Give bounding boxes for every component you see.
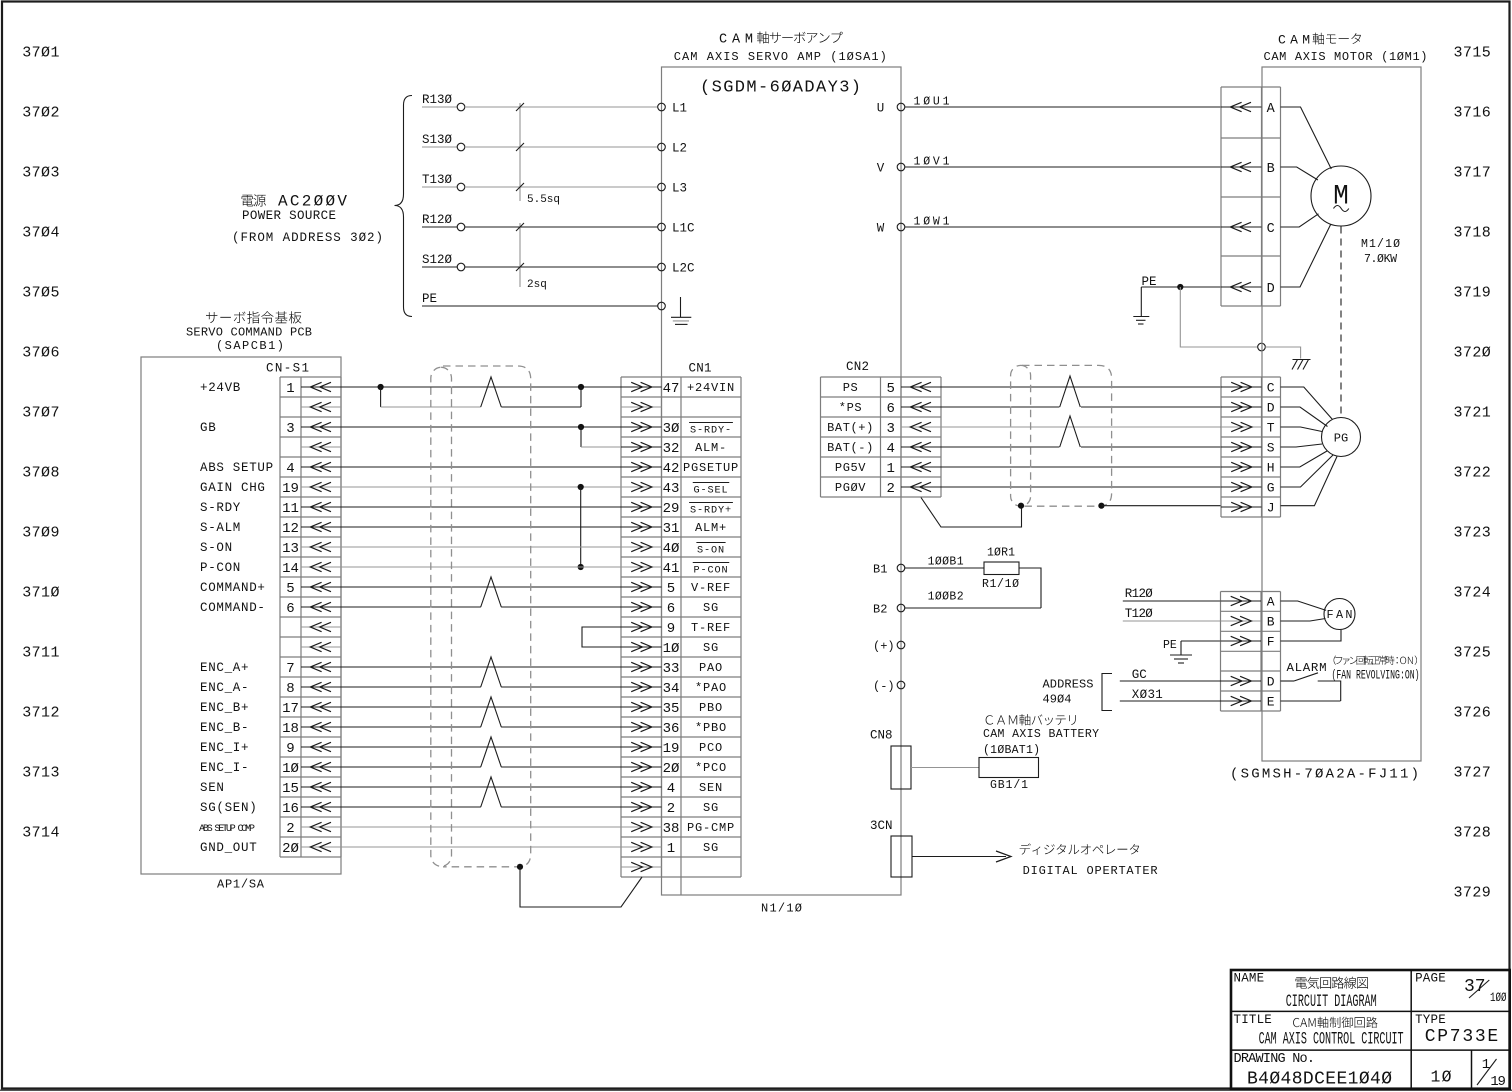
svg-text:ENC_A-: ENC_A-	[200, 681, 249, 695]
right margin line numbers 3715-3729	[1454, 45, 1491, 902]
svg-text:J: J	[1267, 501, 1275, 516]
label ADDRESS 4904	[1043, 678, 1094, 707]
terminal B2	[873, 603, 905, 617]
svg-text:L2C: L2C	[672, 262, 695, 276]
svg-text:(SGDM-6ØADAY3): (SGDM-6ØADAY3)	[700, 79, 861, 98]
terminal W wire 1ØW1	[877, 216, 1221, 236]
svg-text:AP1/SA: AP1/SA	[217, 878, 265, 892]
ground symbol PE	[1133, 287, 1149, 324]
svg-text:5: 5	[667, 581, 675, 597]
wire GB net	[341, 424, 621, 447]
terminal U wire 1ØU1	[877, 96, 1221, 116]
wire CN8 to battery	[911, 767, 979, 769]
svg-text:1ØR1: 1ØR1	[987, 547, 1015, 560]
svg-text:1ØØB2: 1ØØB2	[928, 591, 964, 604]
connector CN1 pin table	[621, 377, 741, 895]
terminal L3	[658, 182, 687, 196]
svg-text:ABS SETUP: ABS SETUP	[200, 461, 274, 475]
svg-text:19: 19	[282, 481, 299, 497]
wire F to fan	[1281, 630, 1342, 641]
wire S13Ø to L2	[422, 133, 658, 151]
wire A to fan	[1281, 601, 1327, 610]
svg-text:(-): (-)	[873, 680, 895, 694]
svg-text:S-RDY-: S-RDY-	[690, 426, 732, 437]
svg-text:PG-CMP: PG-CMP	[687, 821, 735, 835]
svg-text:SG: SG	[703, 841, 719, 855]
svg-text:COMMAND+: COMMAND+	[200, 581, 266, 595]
svg-text:GAIN CHG: GAIN CHG	[200, 481, 266, 495]
svg-text:ALM+: ALM+	[695, 521, 727, 535]
svg-text:P-CON: P-CON	[693, 566, 728, 577]
cable shield left	[431, 367, 452, 866]
title JP CAM axis control circuit	[1293, 1017, 1377, 1028]
svg-text:7: 7	[286, 661, 294, 677]
wire PE to servo amp	[422, 292, 658, 306]
svg-text:*PBO: *PBO	[695, 721, 727, 735]
svg-text:COMMAND-: COMMAND-	[200, 601, 266, 615]
terminal L2C	[658, 262, 695, 276]
wire S-RDY net	[341, 506, 621, 508]
svg-text:(FROM ADDRESS 3Ø2): (FROM ADDRESS 3Ø2)	[232, 231, 383, 245]
wire R12Ø to L4	[422, 213, 658, 231]
wire E alarm	[1281, 700, 1341, 702]
svg-text:CAM AXIS BATTERY: CAM AXIS BATTERY	[983, 728, 1099, 741]
wires PG pins to encoder	[1281, 387, 1338, 506]
svg-text:371Ø: 371Ø	[22, 585, 59, 602]
wire S12Ø to L5	[422, 253, 658, 271]
shield junction left	[1018, 503, 1024, 509]
encoder PG circle	[1322, 418, 1361, 457]
svg-text:ENC_B+: ENC_B+	[200, 701, 249, 715]
svg-text:7.ØKW: 7.ØKW	[1364, 253, 1397, 266]
svg-text:CN1: CN1	[689, 362, 712, 376]
svg-text:L1: L1	[672, 102, 687, 116]
wire S-ON net	[341, 546, 621, 548]
svg-text:38: 38	[663, 821, 680, 837]
servo amp box U10SA1	[662, 67, 902, 895]
svg-text:9: 9	[667, 621, 675, 637]
wire 100B1	[904, 556, 984, 569]
CN-S1 input arrows	[301, 382, 341, 851]
svg-text:3714: 3714	[22, 825, 59, 842]
wire COMMAND- net	[341, 606, 481, 608]
svg-text:3729: 3729	[1454, 885, 1491, 902]
svg-text:SG: SG	[703, 601, 719, 615]
label CAM axis motor JP	[1278, 33, 1361, 48]
label M1/10 7.0KW	[1361, 238, 1400, 266]
svg-text:PG: PG	[1334, 432, 1348, 446]
svg-text:D: D	[1267, 282, 1275, 297]
svg-text:37Ø9: 37Ø9	[22, 525, 59, 542]
svg-text:1: 1	[286, 381, 294, 397]
svg-text:R1/1Ø: R1/1Ø	[982, 578, 1019, 591]
svg-text:SEN: SEN	[200, 781, 225, 795]
svg-text:N1/1Ø: N1/1Ø	[761, 902, 802, 916]
motor to PG dashed link	[1340, 227, 1342, 418]
wire A to motor	[1281, 107, 1332, 169]
svg-text:ENC_I-: ENC_I-	[200, 761, 249, 775]
CN2 arrows	[901, 382, 941, 491]
wire PG0V net	[941, 486, 1221, 488]
svg-text:3721: 3721	[1454, 405, 1491, 422]
svg-text:FAN: FAN	[1327, 608, 1353, 622]
svg-text:4: 4	[286, 461, 294, 477]
svg-text:3718: 3718	[1454, 225, 1491, 242]
wire +24VB net	[341, 377, 621, 407]
battery 10BAT1	[979, 714, 1099, 792]
svg-text:1: 1	[886, 461, 894, 477]
svg-text:372Ø: 372Ø	[1454, 345, 1491, 362]
svg-text:CN-S1: CN-S1	[266, 362, 309, 376]
svg-text:49Ø4: 49Ø4	[1043, 693, 1072, 707]
svg-text:C: C	[1267, 222, 1275, 237]
svg-text:CAM AXIS MOTOR (1ØM1): CAM AXIS MOTOR (1ØM1)	[1264, 50, 1428, 64]
label servo command PCB JP	[206, 311, 302, 323]
wire ABS SETUP net	[341, 466, 621, 468]
svg-text:DRAWING No.: DRAWING No.	[1234, 1052, 1316, 1067]
svg-text:*PS: *PS	[839, 401, 862, 415]
terminal V wire 1ØV1	[877, 156, 1221, 176]
CN-S1 signal labels	[199, 381, 274, 855]
svg-text:6: 6	[667, 601, 675, 617]
chassis ground symbol	[1292, 360, 1311, 370]
wire ENC_I- net	[341, 766, 481, 768]
svg-text:U: U	[877, 102, 885, 116]
svg-text:PCO: PCO	[699, 741, 723, 755]
svg-text:6: 6	[286, 601, 294, 617]
svg-text:F: F	[1267, 635, 1275, 650]
svg-text:S-ON: S-ON	[697, 546, 725, 557]
svg-text:B: B	[1267, 615, 1275, 630]
fan pins A B F D E	[1221, 595, 1275, 710]
brace power source	[395, 96, 413, 317]
svg-text:(SAPCB1): (SAPCB1)	[216, 339, 284, 353]
svg-text:PG5V: PG5V	[835, 461, 866, 475]
svg-text:5.5sq: 5.5sq	[527, 194, 560, 206]
svg-text:3CN: 3CN	[870, 819, 893, 833]
svg-text:PGØV: PGØV	[835, 481, 866, 495]
svg-text:B2: B2	[873, 603, 887, 617]
svg-text:ENC_I+: ENC_I+	[200, 741, 249, 755]
svg-text:2: 2	[286, 821, 294, 837]
svg-text:PAGE: PAGE	[1415, 972, 1446, 986]
wire ENC_B- net	[341, 726, 481, 728]
wire T120	[1123, 620, 1221, 622]
svg-text:POWER SOURCE: POWER SOURCE	[242, 209, 336, 223]
connector CN8	[870, 729, 911, 790]
svg-text:G: G	[1267, 481, 1275, 496]
svg-text:SEN: SEN	[699, 781, 723, 795]
svg-text:A: A	[1267, 595, 1275, 610]
svg-text:T13Ø: T13Ø	[422, 173, 453, 187]
motor power connector table	[1221, 87, 1281, 306]
svg-text:ADDRESS: ADDRESS	[1043, 678, 1094, 692]
title block frame	[1231, 970, 1510, 1089]
wire R120	[1123, 600, 1221, 602]
svg-text:PE: PE	[1163, 639, 1177, 652]
svg-text:33: 33	[663, 661, 680, 677]
wire GAIN CHG net	[341, 484, 621, 570]
title name JP	[1296, 977, 1368, 989]
svg-text:PBO: PBO	[699, 701, 723, 715]
svg-text:3726: 3726	[1454, 705, 1491, 722]
terminal L1	[658, 102, 687, 116]
svg-text:37Ø4: 37Ø4	[22, 225, 59, 242]
svg-text:SG: SG	[703, 641, 719, 655]
svg-text:34: 34	[663, 681, 680, 697]
svg-text:37Ø2: 37Ø2	[22, 105, 59, 122]
svg-text:S: S	[1267, 441, 1275, 456]
svg-text:V-REF: V-REF	[691, 581, 731, 595]
arrow to digital operator	[912, 851, 1011, 862]
svg-text:H: H	[1267, 461, 1275, 476]
svg-text:18: 18	[282, 721, 299, 737]
svg-text:4: 4	[886, 441, 894, 457]
label CAM axis servo amp JP	[719, 32, 843, 48]
wire PE to D	[1141, 284, 1221, 290]
svg-text:XØ31: XØ31	[1132, 688, 1163, 702]
svg-text:GB: GB	[200, 421, 216, 435]
svg-text:G-SEL: G-SEL	[693, 486, 728, 497]
svg-text:3719: 3719	[1454, 285, 1491, 302]
svg-text:GB1/1: GB1/1	[990, 779, 1028, 792]
svg-text:ENC_B-: ENC_B-	[200, 721, 249, 735]
svg-text:2Ø: 2Ø	[663, 761, 680, 777]
fan connector table	[1221, 592, 1281, 712]
motor box 10M1	[1262, 67, 1421, 761]
svg-text:32: 32	[663, 441, 680, 457]
svg-text:PGSETUP: PGSETUP	[683, 461, 739, 475]
svg-text:37Ø5: 37Ø5	[22, 285, 59, 302]
ground symbol PE fan	[1170, 641, 1192, 663]
svg-text:BAT(+): BAT(+)	[827, 421, 874, 435]
svg-text:CAM AXIS SERVO AMP (1ØSA1): CAM AXIS SERVO AMP (1ØSA1)	[674, 50, 887, 64]
wire shield drain to CN1	[520, 867, 642, 907]
svg-text:B1: B1	[873, 563, 887, 577]
svg-text:T12Ø: T12Ø	[1125, 607, 1153, 621]
svg-text:2Ø: 2Ø	[282, 841, 299, 857]
svg-text:CN2: CN2	[846, 360, 869, 374]
svg-text:3Ø: 3Ø	[663, 421, 680, 437]
svg-text:2: 2	[886, 481, 894, 497]
svg-text:37Ø3: 37Ø3	[22, 165, 59, 182]
svg-text:3725: 3725	[1454, 645, 1491, 662]
svg-text:29: 29	[663, 501, 680, 517]
connector CN2 pin table	[821, 377, 942, 497]
svg-text:4Ø: 4Ø	[663, 541, 680, 557]
wire B to motor	[1281, 167, 1318, 180]
svg-text:3724: 3724	[1454, 585, 1491, 602]
connector CN-S1 pin table	[280, 377, 341, 857]
jumper T-REF to SG	[582, 627, 621, 647]
servo command PCB box SAPCB1	[141, 357, 341, 874]
svg-text:1ØØ: 1ØØ	[1490, 990, 1507, 1005]
svg-text:T: T	[1267, 421, 1275, 436]
wire ABS SETUP COMP net	[341, 826, 621, 828]
connector 3CN	[870, 819, 912, 877]
wire X031	[1120, 700, 1221, 702]
svg-text:PE: PE	[422, 292, 437, 306]
svg-text:31: 31	[663, 521, 680, 537]
svg-text:3717: 3717	[1454, 165, 1491, 182]
svg-text:GC: GC	[1132, 668, 1147, 682]
svg-text:R12Ø: R12Ø	[1125, 587, 1153, 601]
svg-text:1: 1	[1482, 1057, 1490, 1073]
motor PG pins C-J	[1221, 381, 1275, 516]
svg-text:1Ø: 1Ø	[282, 761, 299, 777]
svg-text:SG: SG	[703, 801, 719, 815]
svg-text:M1/1Ø: M1/1Ø	[1361, 238, 1400, 251]
svg-text:36: 36	[663, 721, 680, 737]
terminal B1	[873, 563, 905, 577]
svg-text:ENC_A+: ENC_A+	[200, 661, 249, 675]
svg-text:S-ON: S-ON	[200, 541, 233, 555]
resistor R1 10R1	[982, 547, 1019, 592]
svg-text:43: 43	[663, 481, 680, 497]
terminal L2	[658, 142, 687, 156]
CN2 names and numbers	[827, 381, 895, 497]
svg-text:15: 15	[282, 781, 299, 797]
wire SEN net	[341, 777, 621, 807]
svg-text:BAT(-): BAT(-)	[827, 441, 874, 455]
svg-text:PAO: PAO	[699, 661, 723, 675]
svg-text:3727: 3727	[1454, 765, 1491, 782]
svg-text:CAM: CAM	[1278, 33, 1310, 48]
svg-text:47: 47	[663, 381, 680, 397]
wire PE to motor frame	[1180, 287, 1300, 359]
wire *PS net	[941, 406, 1221, 408]
svg-text:37Ø7: 37Ø7	[22, 405, 59, 422]
wire BAT- net	[941, 446, 1221, 448]
svg-text:B4Ø48DCEE1Ø4Ø: B4Ø48DCEE1Ø4Ø	[1247, 1069, 1392, 1089]
svg-text:TITLE: TITLE	[1234, 1013, 1273, 1027]
svg-text:ALARM: ALARM	[1287, 661, 1327, 675]
wire R13Ø to L1	[422, 93, 658, 111]
svg-text:A: A	[1267, 102, 1276, 117]
svg-text:V: V	[877, 162, 885, 176]
wire S-ALM net	[341, 526, 621, 528]
svg-text:(1ØBAT1): (1ØBAT1)	[983, 744, 1040, 757]
wire GC	[1120, 680, 1221, 682]
svg-text:14: 14	[282, 561, 299, 577]
svg-text:5: 5	[286, 581, 294, 597]
svg-text:S-RDY: S-RDY	[200, 501, 241, 515]
svg-text:CIRCUIT DIAGRAM: CIRCUIT DIAGRAM	[1286, 992, 1377, 1012]
wire ENC_B+ net	[341, 697, 621, 727]
svg-text:3723: 3723	[1454, 525, 1491, 542]
shield junction right	[1098, 503, 1104, 509]
label digital operator JP	[1020, 843, 1139, 855]
svg-text:4: 4	[667, 781, 675, 797]
svg-text:L3: L3	[672, 182, 687, 196]
alarm switch	[1281, 673, 1341, 701]
terminal PE with ground	[658, 297, 692, 324]
title page number 37/100	[1464, 977, 1507, 1005]
motor M1 circle	[1311, 166, 1371, 226]
wire PG5V net	[941, 466, 1221, 468]
svg-text:(FAN REVOLVING:ON): (FAN REVOLVING:ON)	[1332, 669, 1420, 683]
CN1 signal names	[683, 381, 739, 855]
motor PG connector table	[1221, 377, 1281, 517]
bracket ADDRESS	[1102, 674, 1112, 711]
svg-text:L1C: L1C	[672, 222, 695, 236]
svg-text:S12Ø: S12Ø	[422, 253, 453, 267]
svg-text:ALM-: ALM-	[695, 441, 727, 455]
svg-text:T-REF: T-REF	[691, 621, 731, 635]
svg-text:D: D	[1267, 401, 1275, 416]
terminal battery plus	[873, 640, 905, 654]
svg-text:3728: 3728	[1454, 825, 1491, 842]
svg-text:3716: 3716	[1454, 105, 1491, 122]
svg-text:6: 6	[886, 401, 894, 417]
svg-text:37Ø1: 37Ø1	[22, 45, 59, 62]
wire resistor to B2	[1019, 568, 1041, 608]
svg-text:E: E	[1267, 695, 1275, 710]
svg-text:9: 9	[286, 741, 294, 757]
CN-S1 pin numbers	[282, 381, 299, 857]
svg-text:41: 41	[663, 561, 680, 577]
svg-text:2: 2	[667, 801, 675, 817]
motor power pins A-D	[1221, 102, 1276, 297]
svg-text:CN8: CN8	[870, 729, 893, 743]
svg-text:TYPE: TYPE	[1415, 1013, 1446, 1027]
wire GND_OUT net	[341, 846, 621, 848]
svg-text:19: 19	[1490, 1074, 1506, 1090]
wire ENC_A+ net	[341, 657, 621, 687]
svg-text:8: 8	[286, 681, 294, 697]
svg-text:3: 3	[886, 421, 894, 437]
wire PE fan	[1181, 640, 1221, 642]
wire COMMAND+ net	[341, 577, 621, 607]
svg-text:2sq: 2sq	[527, 279, 547, 291]
svg-text:35: 35	[663, 701, 680, 717]
svg-text:L2: L2	[672, 142, 687, 156]
wire D to motor	[1281, 224, 1331, 287]
wire SG(SEN) net	[341, 806, 481, 808]
svg-text:+24VB: +24VB	[200, 381, 241, 395]
svg-text:*PAO: *PAO	[695, 681, 727, 695]
svg-text:17: 17	[282, 701, 299, 717]
svg-text:CAM: CAM	[719, 33, 753, 48]
wire BAT+ net	[941, 416, 1221, 447]
svg-text:C: C	[1267, 381, 1275, 396]
wire B to fan	[1281, 619, 1326, 622]
svg-text:CAM AXIS CONTROL CIRCUIT: CAM AXIS CONTROL CIRCUIT	[1259, 1030, 1404, 1050]
wire size 2sq marker	[516, 223, 547, 291]
svg-text:1ØØB1: 1ØØB1	[928, 556, 964, 569]
wire shield to J	[1101, 505, 1221, 507]
svg-text:S13Ø: S13Ø	[422, 133, 453, 147]
label fan revolving JP	[1334, 656, 1417, 665]
svg-text:R13Ø: R13Ø	[422, 93, 453, 107]
svg-text:3711: 3711	[22, 645, 59, 662]
svg-text:GND_OUT: GND_OUT	[200, 841, 257, 855]
svg-text:11: 11	[282, 501, 299, 517]
shield drain junction	[517, 864, 523, 870]
CN1 pin numbers	[663, 381, 680, 857]
svg-text:19: 19	[663, 741, 680, 757]
svg-text:5: 5	[886, 381, 894, 397]
CN1 output arrows	[621, 382, 662, 871]
svg-text:ABS SETUP COMP: ABS SETUP COMP	[199, 824, 255, 835]
svg-text:1Ø: 1Ø	[663, 641, 680, 657]
svg-text:PS: PS	[843, 381, 859, 395]
svg-text:3713: 3713	[22, 765, 59, 782]
wire P-CON net	[341, 566, 621, 568]
svg-text:D: D	[1267, 675, 1275, 690]
svg-text:S-ALM: S-ALM	[200, 521, 241, 535]
wire ENC_A- net	[341, 686, 481, 688]
